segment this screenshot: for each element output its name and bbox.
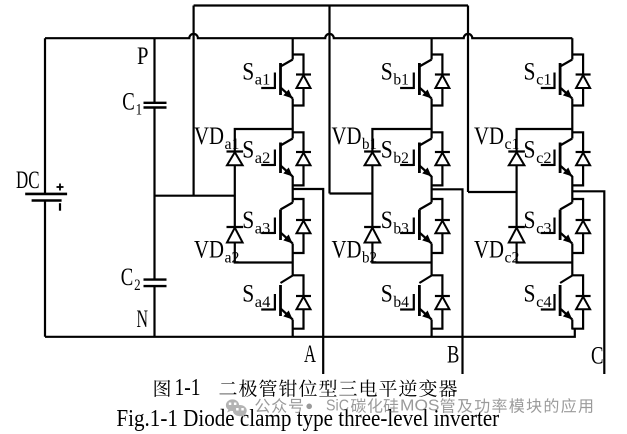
svg-text:b1: b1 xyxy=(393,72,409,89)
svg-text:VD: VD xyxy=(474,123,504,150)
svg-text:S: S xyxy=(381,207,393,234)
battery DC source xyxy=(25,184,67,211)
svg-text:c4: c4 xyxy=(536,294,552,311)
wire: clamp bottom link phase c (VDc2 to Sc3/Sc4 junction) xyxy=(517,243,573,263)
wire: clamp bottom link phase b (VDb2 to Sb3/Sb4 junction) xyxy=(372,243,431,263)
wire: top neutral distribution bus xyxy=(194,4,468,6)
transistor Sc3 (IGBT with antiparallel diode) xyxy=(541,190,591,263)
svg-text:S: S xyxy=(524,207,536,234)
transistor Sb1 (IGBT with antiparallel diode) xyxy=(400,38,450,129)
wire: positive DC bus P with crossover hops xyxy=(45,34,572,38)
svg-text:b2: b2 xyxy=(393,150,409,167)
clamp diode VDa2 xyxy=(227,227,244,243)
svg-text:MOS: MOS xyxy=(400,398,440,415)
svg-text:VD: VD xyxy=(332,237,362,264)
svg-text:B: B xyxy=(447,342,459,369)
wire: clamp column mid phase c (VDc1 to VDc2 through neutral tap) xyxy=(515,165,517,227)
clamp diode VDb2 xyxy=(364,227,381,243)
transistor Sc1 (IGBT with antiparallel diode) xyxy=(541,38,591,129)
svg-text:a1: a1 xyxy=(225,136,240,153)
watermark text xyxy=(255,398,592,415)
capacitor C1 xyxy=(144,103,167,108)
wire: clamp column mid phase a (VDa1 to VDa2 through neutral tap) xyxy=(234,165,236,227)
wire: left DC positive lead xyxy=(44,38,46,194)
svg-text:N: N xyxy=(137,306,149,333)
svg-text:P: P xyxy=(137,43,149,70)
transistor Sa2 (IGBT with antiparallel diode) xyxy=(261,129,311,190)
svg-text:VD: VD xyxy=(194,237,224,264)
wire: clamp top link phase c (Sc1/Sc2 junction to VDc1) xyxy=(517,129,573,152)
svg-text:b4: b4 xyxy=(393,294,409,311)
caption line 1 (Chinese): 图 1-1 二极管钳位型三电平逆变器 xyxy=(155,375,457,401)
svg-text:1: 1 xyxy=(136,102,143,119)
transistor Sb2 (IGBT with antiparallel diode) xyxy=(400,129,450,190)
svg-text:S: S xyxy=(242,137,254,164)
wire: capacitor column middle (C1 to C2) xyxy=(153,108,155,280)
svg-text:S: S xyxy=(242,281,254,308)
svg-text:c1: c1 xyxy=(505,136,520,153)
wire: left DC negative lead xyxy=(44,201,46,337)
transistor Sb3 (IGBT with antiparallel diode) xyxy=(400,190,450,263)
wire: neutral feed phase a (top bus to N line), crosses P bus xyxy=(193,6,195,196)
svg-text:S: S xyxy=(524,281,536,308)
clamp diode VDc1 xyxy=(508,152,525,166)
svg-text:VD: VD xyxy=(194,123,224,150)
wire: capacitor column bottom (C2 to N bus) xyxy=(153,286,155,337)
svg-text:S: S xyxy=(381,281,393,308)
svg-text:1-1: 1-1 xyxy=(175,375,201,401)
svg-text:a2: a2 xyxy=(255,150,270,167)
svg-text:A: A xyxy=(304,341,316,368)
svg-text:b2: b2 xyxy=(362,250,377,267)
capacitor C2 xyxy=(144,280,167,287)
svg-text:S: S xyxy=(524,58,536,85)
clamp diode VDb1 xyxy=(364,152,381,166)
transistor Sc2 (IGBT with antiparallel diode) xyxy=(541,129,591,190)
svg-text:S: S xyxy=(524,137,536,164)
transistor Sa4 (IGBT with antiparallel diode) xyxy=(261,263,311,337)
svg-text:Fig.1-1 Diode clamp type three: Fig.1-1 Diode clamp type three-level inv… xyxy=(116,406,499,432)
svg-text:2: 2 xyxy=(134,277,141,294)
transistor Sc4 (IGBT with antiparallel diode) xyxy=(541,263,591,330)
svg-text:a2: a2 xyxy=(225,250,240,267)
wire: neutral feed phase b xyxy=(328,6,330,194)
svg-text:S: S xyxy=(242,58,254,85)
svg-text:DC: DC xyxy=(16,167,40,194)
transistor Sa1 (IGBT with antiparallel diode) xyxy=(261,38,311,129)
watermark logo (chat bubbles) xyxy=(226,399,247,417)
clamp diode VDc2 xyxy=(508,227,525,243)
svg-text:b1: b1 xyxy=(362,136,377,153)
svg-text:C: C xyxy=(591,343,604,370)
wire: capacitor column top (P bus to C1) xyxy=(153,38,155,103)
wire: clamp bottom link phase a (VDa2 to Sa3/Sa4 junction) xyxy=(235,243,293,263)
svg-text:VD: VD xyxy=(474,237,504,264)
svg-text:C: C xyxy=(121,264,134,291)
wire: phase c output xyxy=(572,191,604,374)
wire: neutral line phase a (cap midpoint to clamp column) xyxy=(155,195,235,197)
svg-text:c2: c2 xyxy=(536,150,552,167)
svg-text:C: C xyxy=(122,89,135,116)
wire: phase b output xyxy=(432,189,463,374)
wire: neutral line phase b xyxy=(330,192,373,194)
svg-text:S: S xyxy=(381,137,393,164)
wire: clamp top link phase b (Sb1/Sb2 junction to VDb1) xyxy=(372,129,431,152)
svg-text:SiC: SiC xyxy=(326,398,349,415)
svg-text:a4: a4 xyxy=(255,294,270,311)
svg-text:b3: b3 xyxy=(393,220,409,237)
svg-text:a3: a3 xyxy=(255,220,270,237)
transistor Sa3 (IGBT with antiparallel diode) xyxy=(261,190,311,263)
wire: clamp top link phase a (Sa1/Sa2 junction to VDa1) xyxy=(235,129,293,152)
clamp diode VDa1 xyxy=(227,152,244,166)
svg-text:a1: a1 xyxy=(255,72,270,89)
wire: negative DC bus N xyxy=(45,329,575,337)
svg-text:c1: c1 xyxy=(536,72,552,89)
svg-text:c3: c3 xyxy=(536,220,552,237)
wire: clamp column mid phase b (VDb1 to VDb2 through neutral tap) xyxy=(371,165,373,227)
svg-text:S: S xyxy=(242,207,254,234)
svg-text:S: S xyxy=(381,58,393,85)
wire: neutral feed phase c xyxy=(467,6,469,193)
svg-text:VD: VD xyxy=(332,123,362,150)
transistor Sb4 (IGBT with antiparallel diode) xyxy=(400,263,450,337)
wire: phase a output xyxy=(293,189,324,374)
wire: neutral line phase c xyxy=(468,191,517,193)
